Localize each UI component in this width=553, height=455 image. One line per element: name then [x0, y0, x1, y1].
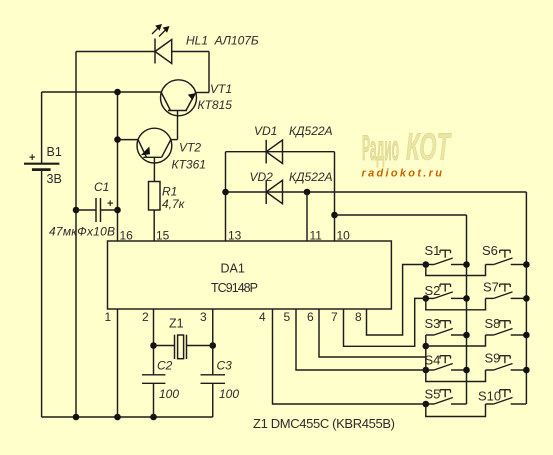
svg-text:3B: 3B — [47, 172, 62, 186]
svg-text:6: 6 — [307, 310, 314, 324]
svg-text:VD1: VD1 — [254, 124, 277, 138]
svg-text:S2: S2 — [425, 283, 441, 298]
svg-text:КД522А: КД522А — [289, 170, 333, 184]
svg-text:VT2: VT2 — [179, 141, 201, 155]
svg-text:C1: C1 — [94, 180, 109, 194]
svg-text:S1: S1 — [425, 243, 441, 258]
svg-text:S3: S3 — [425, 316, 441, 331]
svg-text:7: 7 — [331, 310, 338, 324]
svg-text:VD2: VD2 — [250, 170, 274, 184]
svg-text:8: 8 — [355, 310, 362, 324]
svg-text:4,7к: 4,7к — [162, 197, 186, 211]
svg-text:B1: B1 — [47, 145, 62, 159]
svg-text:КД522А: КД522А — [289, 124, 333, 138]
svg-text:VT1: VT1 — [210, 82, 232, 96]
svg-text:КТ815: КТ815 — [198, 98, 233, 112]
svg-text:100: 100 — [219, 387, 239, 401]
svg-text:11: 11 — [310, 229, 323, 243]
svg-text:C3: C3 — [217, 359, 233, 373]
svg-text:radiokot.ru: radiokot.ru — [362, 168, 445, 180]
svg-text:DA1: DA1 — [221, 262, 245, 276]
svg-text:Z1 DMC455C (KBR455B): Z1 DMC455C (KBR455B) — [253, 416, 395, 431]
svg-text:КТ361: КТ361 — [172, 158, 206, 172]
svg-text:HL1 АЛ107Б: HL1 АЛ107Б — [186, 34, 259, 48]
svg-text:3: 3 — [200, 310, 207, 324]
svg-text:S7: S7 — [483, 280, 499, 295]
svg-text:47мкФх10В: 47мкФх10В — [49, 225, 115, 239]
svg-text:TC9148P: TC9148P — [211, 281, 258, 295]
svg-text:Радио: Радио — [362, 128, 399, 168]
svg-text:S6: S6 — [482, 243, 498, 258]
svg-text:S10: S10 — [478, 389, 501, 404]
svg-text:2: 2 — [142, 310, 149, 324]
svg-text:10: 10 — [337, 229, 351, 243]
svg-text:+: + — [29, 152, 35, 164]
svg-text:КОТ: КОТ — [406, 125, 452, 168]
svg-text:16: 16 — [120, 229, 134, 243]
svg-text:S8: S8 — [485, 316, 501, 331]
svg-text:C2: C2 — [157, 359, 173, 373]
svg-text:100: 100 — [159, 387, 179, 401]
svg-text:S4: S4 — [425, 353, 441, 368]
svg-text:5: 5 — [284, 310, 291, 324]
svg-text:13: 13 — [228, 229, 242, 243]
svg-text:15: 15 — [156, 229, 170, 243]
svg-text:1: 1 — [105, 310, 112, 324]
svg-text:Z1: Z1 — [169, 317, 184, 331]
svg-text:4: 4 — [259, 310, 266, 324]
svg-text:+: + — [107, 198, 113, 210]
svg-text:S5: S5 — [425, 387, 441, 402]
svg-text:S9: S9 — [485, 351, 501, 366]
